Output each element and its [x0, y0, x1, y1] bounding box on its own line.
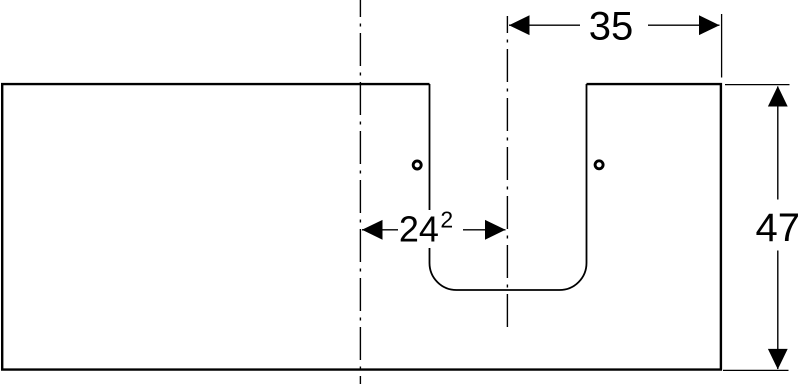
arrowhead 35 right	[699, 15, 720, 35]
hole left	[413, 161, 421, 169]
cutout (notch with rounded bottom corners)	[430, 84, 587, 290]
extension line (right edge for dim 35)	[721, 14, 723, 78]
dimension line 24	[362, 229, 398, 231]
countertop outline	[2, 84, 721, 370]
centerline left (vertical dash-dot)	[359, 0, 361, 384]
centerline right (vertical dash-dot)	[506, 16, 508, 332]
text mask 24	[398, 210, 463, 248]
arrowhead 47 bottom	[768, 349, 788, 370]
dimension line 35	[509, 24, 580, 26]
arrowhead 35 left	[509, 15, 530, 35]
dimension line 47	[777, 87, 779, 200]
svg-text:47: 47	[756, 206, 799, 250]
arrowhead 24 right	[485, 220, 506, 240]
arrowhead 24 left	[362, 220, 383, 240]
svg-text:24: 24	[399, 209, 439, 250]
svg-text:35: 35	[589, 5, 634, 49]
arrowhead 47 top	[768, 86, 788, 107]
extension line (bottom for dim 47)	[723, 369, 789, 371]
extension line (top for dim 47)	[725, 84, 790, 86]
hole right	[595, 161, 603, 169]
svg-text:2: 2	[440, 207, 453, 233]
